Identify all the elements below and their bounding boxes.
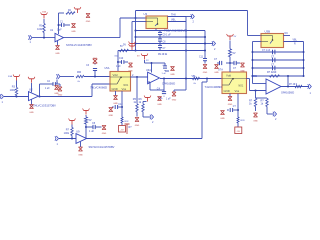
wire select U3 [132, 21, 146, 23]
connector J3 [58, 74, 60, 79]
svg-text:5V: 5V [233, 52, 236, 55]
wire railR4 [253, 75, 304, 77]
resistor R2 [66, 12, 75, 14]
resistor R1 pull [43, 21, 45, 24]
ground C13 [158, 97, 162, 101]
resistor R3 pull [16, 84, 18, 87]
op-amp U9 [76, 134, 87, 144]
node M2 [136, 76, 138, 78]
power +5VA R3 [16, 77, 18, 81]
svg-text:R? 49.9: R? 49.9 [289, 84, 298, 86]
svg-text:NO1: NO1 [239, 85, 244, 87]
wire plus [247, 78, 250, 80]
wire right bus [284, 41, 304, 43]
resistor R5 [136, 104, 138, 112]
svg-text:1 uF: 1 uF [89, 130, 94, 133]
wire [32, 37, 55, 39]
svg-text:100k: 100k [10, 89, 16, 92]
svg-text:NC: NC [285, 32, 289, 35]
svg-text:Vss: Vss [235, 89, 240, 93]
op-amp U8 [266, 79, 281, 94]
svg-text:5V: 5V [120, 46, 123, 48]
resistor R15 [85, 117, 88, 124]
ground U2 [31, 100, 33, 105]
capacitor C11 [203, 58, 207, 60]
ground spare [86, 14, 90, 18]
wire minus [253, 83, 267, 85]
svg-text:GND: GND [55, 53, 60, 55]
analog switch U4 [261, 34, 284, 48]
resistor R4 [76, 75, 84, 77]
ground C14 [241, 63, 245, 67]
wire railR1 [253, 51, 304, 53]
capacitor C2 [52, 82, 54, 86]
svg-text:74LVC4066D: 74LVC4066D [90, 86, 107, 90]
resistor R7 on rail4 [120, 49, 129, 51]
svg-text:GND: GND [170, 74, 175, 76]
node R2a [252, 59, 254, 61]
svg-text:R? 4k99: R? 4k99 [267, 71, 277, 74]
node A3 [135, 17, 137, 19]
wire NC stub [284, 35, 291, 37]
svg-text:VBL: VBL [171, 19, 176, 22]
capacitor C7 series [159, 44, 161, 46]
IC U7 74LVC4066 [222, 72, 247, 94]
wire bias B [39, 84, 41, 97]
ground C15 [215, 65, 219, 69]
node C1 [71, 138, 73, 140]
svg-text:GND: GND [29, 112, 34, 114]
wire [84, 76, 110, 78]
svg-text:Vdd: Vdd [113, 73, 118, 77]
capacitor C12 [118, 106, 122, 108]
connector J8 (input C) [56, 136, 58, 141]
node B1b [185, 36, 187, 38]
svg-text:VBL: VBL [192, 76, 197, 78]
ground C12 [109, 108, 113, 112]
op-amp U2 [29, 92, 39, 101]
svg-text:GND: GND [172, 99, 177, 101]
node L5 [204, 36, 206, 38]
wire [60, 76, 74, 78]
ground C1 [72, 24, 76, 28]
resistor R10 [270, 75, 280, 77]
wire Vdd IC1 [117, 51, 119, 72]
resistor R13 [266, 97, 268, 100]
svg-text:100k: 100k [37, 28, 43, 31]
svg-text:GND: GND [203, 72, 208, 74]
power +5V IC1 [131, 44, 133, 48]
bottom pin U3 [155, 29, 157, 31]
power +5VA R1 [43, 15, 45, 19]
node L3 [135, 43, 137, 45]
connector J5 [151, 115, 153, 120]
capacitor C20 [152, 62, 166, 64]
wire bias A [58, 13, 60, 34]
wire top rail [135, 11, 137, 19]
test point [126, 124, 128, 134]
IC U5 74LVC4066 [110, 72, 131, 92]
svg-text:GND: GND [71, 31, 76, 33]
power chain U9 [85, 111, 87, 115]
node O2 [287, 86, 289, 88]
wire rail4 Vdd [118, 50, 205, 52]
wire bus J4 [204, 31, 206, 59]
wire railR3 [253, 67, 304, 69]
svg-text:1 uF: 1 uF [45, 88, 50, 90]
resistor R11 [295, 85, 302, 87]
svg-text:SN74LVC1G3157DBV: SN74LVC1G3157DBV [66, 43, 92, 47]
ground C11 [203, 65, 207, 69]
wire Vss IC2 [237, 94, 239, 118]
svg-text:U7A: U7A [218, 69, 223, 72]
node L4 [135, 50, 137, 52]
power U2 [31, 79, 33, 83]
resistor R12 [254, 99, 256, 107]
node B2 [16, 96, 18, 98]
node M4 [185, 78, 187, 80]
ground mid [172, 92, 176, 96]
svg-text:GND: GND [157, 104, 162, 106]
node M5 [206, 78, 208, 80]
wire [4, 96, 29, 98]
svg-text:5VA: 5VA [8, 75, 13, 78]
ground C2 [59, 84, 61, 87]
svg-text:NO1: NO1 [124, 85, 129, 87]
capacitor C14 [230, 62, 234, 64]
ground C10 [129, 63, 133, 67]
node A1 [43, 37, 45, 39]
svg-text:U3: U3 [144, 12, 148, 16]
wire [205, 43, 213, 45]
wire riser C [206, 79, 208, 83]
capacitor C15 left [226, 62, 230, 64]
capacitor C1 [59, 24, 62, 26]
power chain IC2 [229, 36, 231, 40]
wire out A [64, 37, 121, 39]
connector J4 [213, 41, 215, 46]
wire rail2 [136, 36, 206, 38]
node A2 [58, 24, 60, 26]
svg-text:5V: 5V [123, 44, 126, 47]
node B1c [185, 50, 187, 52]
wire [59, 138, 76, 140]
node V2 [121, 106, 123, 108]
capacitor C9 series [159, 31, 161, 33]
resistor R8 on rail [193, 77, 200, 79]
node O3 [287, 75, 289, 77]
svg-text:100k: 100k [64, 132, 70, 135]
power -5V IC1 [119, 126, 126, 133]
connector J1 (input A) [30, 35, 32, 40]
node L1 [135, 30, 137, 32]
power +5V U3 select [131, 46, 133, 50]
power R6 [143, 101, 147, 103]
resistor R9 [229, 49, 232, 57]
svg-text:GND: GND [93, 58, 98, 60]
ground U9 [80, 142, 82, 147]
svg-text:1 uF: 1 uF [166, 99, 171, 101]
connector J2 (input B) [1, 94, 3, 99]
analog switch U3 [146, 16, 168, 29]
svg-text:U9: U9 [76, 129, 80, 133]
connector J9 [186, 16, 192, 18]
ground C3 [94, 63, 96, 64]
svg-text:SN74LVC1G3157DBV: SN74LVC1G3157DBV [30, 104, 56, 108]
wire divider out [255, 91, 257, 99]
svg-text:74LVC4066D: 74LVC4066D [205, 85, 222, 89]
svg-text:U3B: U3B [265, 30, 271, 34]
ground IC2 pin [229, 94, 231, 97]
wire out B [39, 96, 93, 98]
node L2 [135, 36, 137, 38]
ground C20 [164, 69, 166, 72]
wire out [281, 86, 309, 88]
svg-text:GND: GND [224, 89, 230, 93]
svg-text:1 uF: 1 uF [116, 66, 121, 68]
connector J6 [274, 112, 276, 117]
svg-text:GND: GND [86, 21, 91, 23]
wire U3 out pins [168, 16, 187, 18]
wire rail3 [136, 43, 206, 45]
svg-text:R9 49.9k: R9 49.9k [158, 54, 168, 56]
node R2b [303, 59, 305, 61]
feedback U6 [163, 79, 165, 91]
wire out U6 rail [160, 78, 222, 80]
wire Vss IC1 [121, 91, 123, 117]
svg-text:C12: C12 [118, 104, 123, 106]
wire divider [136, 77, 138, 104]
node V4 [237, 109, 239, 111]
capacitor C8 series [159, 37, 161, 39]
svg-text:U8B: U8B [252, 74, 258, 78]
svg-text:U5A: U5A [105, 67, 110, 70]
svg-text:C10: C10 [119, 58, 124, 60]
capacitor C16 [233, 109, 238, 111]
capacitor C18 [272, 58, 274, 63]
capacitor C10 [118, 61, 121, 63]
svg-text:Vss: Vss [122, 87, 127, 91]
node R4b [303, 75, 305, 77]
svg-text:GND: GND [109, 115, 114, 117]
svg-text:GND: GND [253, 120, 258, 122]
capacitor C5 [86, 126, 93, 128]
wire feedback tap [287, 76, 289, 87]
node B1a [185, 30, 187, 32]
node V3 [229, 62, 231, 64]
svg-text:GND: GND [214, 72, 219, 74]
ground C5 [102, 126, 106, 130]
node B3 [39, 96, 41, 98]
op-amp U1 [55, 33, 64, 41]
power U6 [144, 56, 146, 60]
ground C16 [221, 111, 225, 115]
wire left bus [253, 41, 262, 43]
power -5V IC2 [235, 127, 242, 134]
svg-text:1 uF: 1 uF [162, 73, 167, 75]
ground J3 [56, 80, 58, 85]
capacitor C17 [272, 50, 274, 55]
node O1 [255, 90, 257, 92]
ground IC1 pin [115, 91, 117, 96]
node M1 [94, 76, 96, 78]
node R3a [252, 67, 254, 69]
svg-text:GND: GND [102, 133, 107, 135]
node R4a [252, 75, 254, 77]
svg-text:GND: GND [112, 87, 118, 91]
capacitor C19 [272, 66, 274, 71]
svg-text:C9 1 uF: C9 1 uF [163, 35, 172, 37]
node L6 [204, 43, 206, 45]
capacitor C13 [163, 90, 165, 91]
wire bus B1 [185, 17, 187, 79]
node M3 [163, 78, 165, 80]
svg-text:Vdd: Vdd [226, 73, 231, 77]
svg-text:GND: GND [240, 70, 245, 72]
op-amp U6 [148, 72, 160, 84]
svg-text:OPA1656ID: OPA1656ID [281, 92, 294, 95]
ground R5 [135, 118, 139, 122]
power R2 [77, 9, 79, 13]
connector J7 (output) [309, 84, 311, 89]
wire IC1 out [131, 76, 148, 78]
wire bus A out [135, 18, 137, 51]
svg-text:GND: GND [78, 154, 83, 156]
svg-text:1 uF: 1 uF [57, 29, 62, 31]
node C2a [85, 126, 87, 128]
svg-text:U6A: U6A [146, 69, 151, 72]
svg-text:U2: U2 [29, 87, 33, 91]
node R1b [303, 51, 305, 53]
resistor R14 pull [71, 125, 73, 128]
wire railR2 [253, 59, 304, 61]
resistor R6 [142, 102, 144, 104]
svg-text:GND: GND [54, 93, 59, 95]
node L7 [204, 50, 206, 52]
node V1 [117, 61, 119, 63]
node U6s [151, 62, 153, 64]
svg-text:THK: THK [171, 14, 176, 17]
svg-text:GND: GND [220, 118, 225, 120]
svg-text:SN74LVC1G3157DBV: SN74LVC1G3157DBV [89, 145, 115, 149]
ground R12 [254, 113, 258, 117]
power R14 [71, 121, 73, 125]
wire [119, 18, 121, 38]
capacitor C3 shunt [94, 71, 96, 77]
node R3b [303, 67, 305, 69]
ground jog [185, 79, 187, 91]
svg-text:GND: GND [135, 125, 140, 127]
wire rail1 [136, 30, 206, 32]
node R1a [252, 51, 254, 53]
ground U1 [57, 41, 59, 46]
